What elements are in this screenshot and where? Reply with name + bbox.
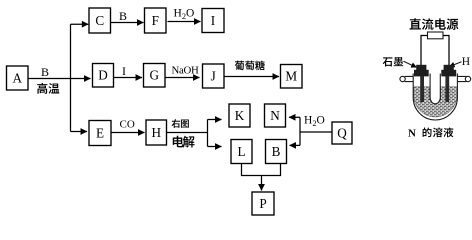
label shimo (graphite): [383, 57, 404, 66]
graphite pointer arrow: [404, 61, 417, 67]
U-tube glass outline: [413, 74, 457, 121]
wire branch trunk: [70, 24, 72, 131]
svg-text:CO: CO: [120, 118, 135, 130]
right electrode rod: [445, 74, 449, 102]
U-tube liquid (solution of N): [414, 87, 457, 117]
box C: [89, 8, 111, 33]
wire left fork stem: [207, 120, 209, 147]
arrow G to J: [165, 77, 200, 79]
label dianjie (electrolysis): [173, 136, 195, 148]
svg-text:J: J: [211, 68, 216, 83]
wire right wire: [443, 36, 449, 67]
box P: [252, 192, 274, 215]
arrow C to F: [111, 22, 144, 24]
svg-text:B: B: [119, 9, 127, 23]
arrow fork to B: [290, 144, 301, 146]
svg-text:NaOH: NaOH: [172, 65, 199, 77]
box G: [144, 64, 166, 88]
svg-text:B: B: [41, 65, 49, 79]
H pointer arrow: [450, 62, 462, 67]
box N: [265, 104, 286, 127]
box J: [203, 64, 225, 88]
box K: [229, 104, 250, 127]
arrow J to M: [224, 76, 279, 78]
arrow branch to C: [71, 23, 89, 25]
label de rongye (solution): [423, 127, 454, 137]
svg-text:G: G: [149, 68, 159, 83]
box I: [202, 9, 224, 33]
left side arm: [405, 76, 414, 81]
label gaowen (high temperature): [37, 83, 59, 94]
svg-text:N: N: [270, 108, 280, 123]
box E: [89, 121, 111, 146]
arrow E to H: [111, 132, 145, 134]
wire L-B joiner: [242, 164, 281, 176]
right side arm: [457, 76, 466, 81]
arrow D to G: [114, 77, 143, 79]
wire Q to right fork: [300, 131, 332, 133]
arrow fork to N: [289, 116, 300, 118]
left stopper/electrode block: [416, 65, 426, 70]
svg-text:D: D: [98, 68, 108, 83]
wire H to left fork: [167, 132, 208, 134]
left graphite electrode rod: [420, 74, 424, 102]
battery / power supply box: [428, 32, 444, 39]
label putaotang (glucose): [235, 61, 265, 71]
svg-text:H: H: [151, 125, 161, 140]
svg-text:L: L: [237, 144, 245, 159]
label zhiliu dianyuan (DC power): [410, 18, 459, 30]
svg-text:Q: Q: [337, 125, 347, 140]
box F: [145, 8, 167, 33]
arrow fork to L: [208, 146, 222, 148]
svg-text:B: B: [272, 144, 281, 159]
svg-text:M: M: [285, 69, 297, 84]
svg-text:K: K: [235, 108, 245, 123]
wire right fork stem: [299, 117, 301, 145]
label youtu (right figure): [172, 119, 189, 128]
arrow branch to E: [71, 131, 88, 133]
box L: [231, 140, 252, 164]
svg-text:C: C: [95, 13, 104, 28]
svg-text:N: N: [408, 128, 416, 140]
right stopper/electrode block: [444, 65, 454, 70]
box A: [7, 66, 29, 90]
svg-text:F: F: [152, 13, 159, 28]
svg-text:P: P: [259, 196, 266, 211]
wire left wire: [421, 36, 428, 67]
svg-text:I: I: [122, 64, 126, 78]
arrow fork to K: [208, 119, 222, 121]
box D: [93, 64, 114, 88]
svg-text:E: E: [96, 125, 104, 140]
arrow A to D: [28, 78, 91, 80]
arrow joiner to P: [261, 176, 263, 191]
box M: [281, 65, 303, 89]
svg-text:A: A: [12, 70, 22, 85]
box Q: [332, 122, 352, 144]
svg-text:I: I: [211, 13, 215, 28]
box B: [266, 140, 287, 164]
box H: [146, 120, 167, 145]
arrow F to I: [168, 21, 201, 23]
svg-text:H: H: [462, 56, 470, 68]
